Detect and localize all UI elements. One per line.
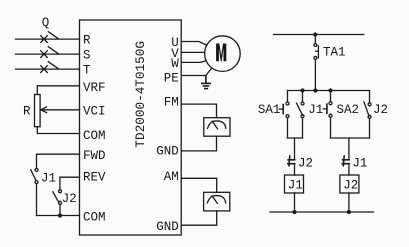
svg-text:W: W	[171, 57, 179, 71]
inverter block U1	[80, 20, 182, 235]
svg-text:FWD: FWD	[83, 149, 106, 163]
svg-text:J1: J1	[41, 171, 56, 185]
contact J1 (FWD branch)	[31, 154, 80, 215]
breaker Q pole R (wire, fuse X, blade)	[16, 32, 80, 43]
svg-text:VCI: VCI	[83, 104, 106, 118]
svg-text:SA1: SA1	[258, 103, 281, 117]
wire motor frame to ground	[206, 68, 212, 76]
svg-text:REV: REV	[83, 170, 106, 184]
svg-text:FM: FM	[164, 95, 179, 109]
svg-text:J2: J2	[373, 103, 388, 117]
wire AM to meter P2	[181, 178, 217, 192]
potentiometer R	[35, 86, 80, 134]
wire rejoin SA1/J1	[288, 137, 303, 139]
contact J2 (REV branch)	[53, 177, 80, 215]
pushbutton SA1	[279, 91, 289, 139]
svg-text:J2: J2	[298, 156, 313, 170]
meter P1	[204, 118, 230, 137]
control top rail	[274, 34, 364, 36]
svg-text:TA1: TA1	[323, 46, 346, 60]
wire NC to coil J1	[294, 164, 296, 175]
control bottom rail	[270, 211, 374, 213]
wire NC to coil J2	[348, 164, 350, 175]
contact J2 (seal-in)	[364, 91, 371, 139]
wire W to motor	[181, 61, 206, 63]
svg-text:GND: GND	[156, 220, 179, 234]
svg-text:J2: J2	[343, 179, 358, 193]
meter P2	[204, 192, 230, 211]
wire meter P1 to GND	[181, 136, 216, 151]
wire FM to meter P1	[181, 104, 216, 118]
svg-text:R: R	[83, 33, 91, 47]
svg-text:SA2: SA2	[337, 103, 360, 117]
relay coil J2	[340, 175, 359, 193]
svg-text:GND: GND	[156, 145, 179, 159]
svg-text:AM: AM	[164, 170, 179, 184]
wire coil J2 to rail	[348, 193, 350, 212]
svg-text:J2: J2	[62, 192, 77, 206]
svg-text:TD2000-4T0150G: TD2000-4T0150G	[133, 41, 148, 148]
wire V to motor	[181, 51, 205, 53]
wire drop left	[294, 138, 296, 160]
wire coil J1 to rail	[294, 193, 296, 212]
breaker Q pole S	[16, 47, 80, 58]
relay coil J1	[285, 175, 304, 193]
NC contact J1	[342, 156, 349, 166]
wire drop right	[348, 138, 350, 160]
contact TA1	[314, 35, 319, 91]
junction dot	[58, 213, 62, 217]
wire PE	[181, 75, 206, 77]
svg-text:J1: J1	[352, 156, 367, 170]
pushbutton SA2	[323, 91, 332, 139]
junction dot left	[292, 210, 296, 214]
wire rejoin SA2/J2	[331, 137, 370, 139]
svg-text:T: T	[83, 64, 91, 78]
svg-text:J1: J1	[288, 179, 303, 193]
motor M	[205, 36, 241, 72]
svg-text:J1: J1	[308, 103, 323, 117]
wire meter P2 to GND	[181, 211, 217, 225]
contact J1 (seal-in)	[297, 91, 305, 139]
ground	[202, 76, 210, 89]
NC contact J2	[288, 156, 295, 166]
svg-text:VRF: VRF	[83, 81, 106, 95]
motor letter M	[216, 44, 226, 62]
svg-text:R: R	[23, 105, 31, 119]
wire COM bottom	[37, 215, 80, 217]
svg-text:COM: COM	[83, 211, 106, 225]
svg-text:COM: COM	[83, 129, 106, 143]
junction dot right	[347, 210, 351, 214]
junction dots bus	[300, 88, 304, 92]
svg-text:Q: Q	[42, 16, 50, 30]
control bus	[288, 90, 370, 92]
breaker Q pole T	[16, 62, 80, 73]
svg-text:PE: PE	[164, 72, 179, 86]
wire U to motor	[181, 42, 207, 46]
junction dot top rail	[313, 32, 317, 36]
svg-text:S: S	[83, 49, 91, 63]
